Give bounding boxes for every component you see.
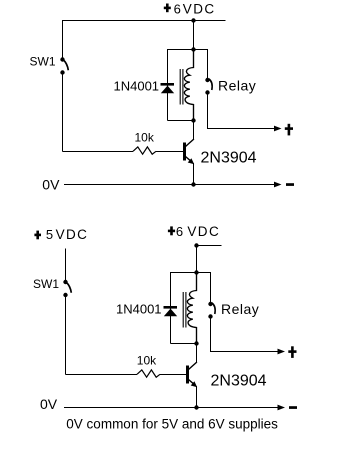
junction dot emitter 0V (bottom) (194, 405, 198, 409)
relay contact lever (bottom) (212, 303, 215, 314)
junction dot +6 corner (bottom) (194, 243, 198, 247)
svg-text:VDC: VDC (56, 227, 89, 242)
junction dot emitter 0V (191, 182, 195, 186)
diode D2 anode triangle (bottom) (164, 309, 177, 317)
transistor Q2 emitter diagonal + arrow (bottom) (189, 380, 194, 384)
relay box top wire (167, 49, 208, 51)
junction dot box top (191, 47, 195, 51)
wire 0V rail (64, 184, 275, 186)
svg-text:10k: 10k (135, 131, 155, 145)
relay box left wire (diode branch) (167, 50, 169, 121)
wire relay contact upper (207, 50, 209, 79)
transistor Q1 emitter diagonal + arrow (186, 157, 191, 161)
svg-text:1N4001: 1N4001 (114, 79, 160, 94)
relay contact dots (205, 78, 209, 82)
switch SW1 contact dots (bottom) (63, 280, 67, 284)
wire relay contact upper (bottom) (210, 273, 212, 303)
relay box bottom wire (bottom) (171, 343, 197, 345)
resistor R 10k zigzag (bottom) (137, 370, 160, 377)
switch SW1 lever (bottom) (66, 282, 71, 292)
svg-text:0V common for 5V and 6V suppli: 0V common for 5V and 6V supplies (66, 416, 278, 431)
wire base row to resistor (63, 151, 134, 153)
svg-text:SW1: SW1 (33, 277, 59, 291)
diode D1 1N4001 cathode bar (161, 83, 175, 86)
relay coil core lines (179, 69, 181, 105)
label +6 VDC (top) (164, 7, 171, 10)
svg-text:0V: 0V (40, 396, 58, 412)
relay coil winding (184, 50, 193, 121)
wire emitter vertical (193, 163, 195, 185)
wire supply drop to relay box (bottom) (196, 246, 198, 273)
resistor R 10k zigzag (133, 147, 156, 154)
output arrow - (top, on 0V rail) (274, 182, 282, 188)
relay contact dots (bottom) (208, 302, 212, 306)
transistor Q2 base bar (bottom) (186, 366, 189, 384)
wire resistor to base (bottom) (160, 374, 186, 376)
relay box left wire (bottom) (170, 273, 172, 344)
svg-text:10k: 10k (137, 353, 157, 367)
wire emitter vertical (bottom) (196, 386, 198, 408)
transistor Q1 collector diagonal (186, 139, 194, 147)
output arrow + (bottom) (278, 349, 286, 355)
svg-text:Relay: Relay (221, 301, 259, 317)
wire base row to resistor (bottom) (66, 374, 138, 376)
svg-text:6: 6 (174, 1, 181, 16)
transistor Q2 collector diagonal (bottom) (189, 362, 197, 370)
label +6 VDC (bottom) (168, 230, 175, 233)
wire +6VDC short rail (bottom) (197, 245, 222, 247)
svg-text:6: 6 (176, 224, 183, 239)
label +5 VDC (34, 234, 41, 237)
wire resistor to base (156, 151, 183, 153)
relay contact lever (209, 79, 212, 90)
wire collector vertical (193, 121, 195, 140)
relay coil core lines (bottom) (182, 292, 184, 328)
diode D2 1N4001 cathode bar (bottom) (164, 306, 178, 309)
svg-text:Relay: Relay (218, 78, 256, 94)
transistor Q1 base bar (183, 143, 186, 161)
relay box bottom wire (168, 120, 194, 122)
svg-text:VDC: VDC (183, 1, 216, 16)
svg-text:2N3904: 2N3904 (201, 150, 257, 167)
relay box top wire (bottom) (170, 272, 211, 274)
wire SW1 lower (bottom circuit) (65, 297, 67, 375)
output arrow - (bottom, on 0V rail) (278, 405, 286, 411)
wire relay contact lower + output (208, 95, 275, 129)
svg-text:SW1: SW1 (30, 55, 56, 69)
svg-text:1N4001: 1N4001 (116, 302, 162, 317)
wire collector vertical (bottom) (196, 344, 198, 363)
svg-text:VDC: VDC (187, 224, 220, 239)
junction dot box bottom (191, 118, 195, 122)
wire SW1 upper (62, 21, 64, 59)
wire 0V rail (bottom) (64, 407, 278, 409)
wire top rail +6VDC (62, 20, 226, 22)
svg-text:0V: 0V (42, 177, 60, 193)
relay coil winding (bottom) (187, 273, 196, 344)
svg-text:2N3904: 2N3904 (211, 373, 267, 390)
switch SW1 lever (63, 60, 68, 70)
wire relay contact lower + output (bottom) (211, 319, 279, 352)
svg-text:5: 5 (46, 227, 53, 242)
junction dot box top (bottom) (194, 270, 198, 274)
output arrow + (top) (274, 126, 282, 132)
diode D1 anode triangle (161, 86, 174, 94)
junction dot box bottom (bottom) (194, 341, 198, 345)
wire SW1 lower (62, 74, 64, 152)
wire +5VDC drop to SW1 (65, 249, 67, 281)
junction dot top rail (191, 18, 195, 22)
switch SW1 contact dots (60, 57, 64, 61)
wire supply drop to relay box (193, 21, 195, 50)
